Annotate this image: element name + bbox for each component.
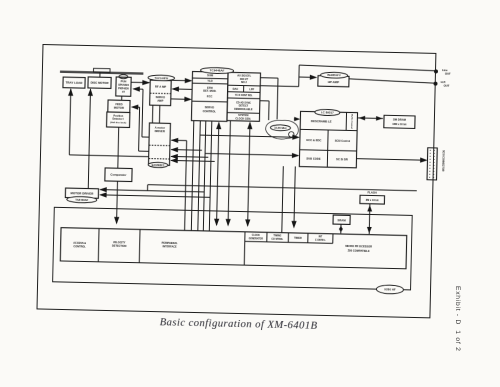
svg-text:AMP: AMP: [157, 99, 163, 103]
connector SCSI: [427, 148, 437, 180]
svg-text:BH3854FV: BH3854FV: [327, 73, 341, 77]
svg-text:DRIVER: DRIVER: [155, 129, 165, 133]
svg-text:YC D CONT ROL: YC D CONT ROL: [235, 95, 253, 97]
block Position Detector: [107, 112, 130, 128]
svg-text:33.86 MHz: 33.86 MHz: [274, 126, 287, 130]
wire comparator from position detector: [117, 127, 120, 168]
memory block SRAM: [333, 215, 350, 224]
wire TC9446 system bus bidirectional: [217, 123, 219, 225]
svg-text:X280 HF: X280 HF: [384, 287, 396, 291]
svg-text:CONTROL: CONTROL: [73, 245, 86, 248]
svg-text:SM DRAM: SM DRAM: [393, 117, 407, 121]
svg-text:SCSI CONNECTOR: SCSI CONNECTOR: [441, 150, 444, 172]
wire TC9446 to RF amp feedback: [173, 88, 193, 90]
block Comparator: [105, 168, 132, 182]
svg-text:TRAY LOAD: TRAY LOAD: [66, 81, 83, 85]
svg-text:MOTOR: MOTOR: [114, 106, 124, 110]
svg-text:OUT: OUT: [445, 72, 451, 76]
disc platter: [60, 72, 143, 74]
IC label TA2144FN: [148, 75, 175, 81]
wire to line out: [299, 65, 435, 71]
svg-text:DETECTION: DETECTION: [112, 244, 127, 247]
wire servo drive 3 into 4-motor driver: [171, 155, 208, 158]
wire SRAM to system bus double arrow: [340, 224, 342, 233]
wire into motor driver lower: [100, 195, 210, 197]
wire RF amp to TC9446 sum: [171, 79, 190, 81]
svg-text:HP AMP: HP AMP: [328, 80, 339, 84]
svg-text:RF A MP: RF A MP: [155, 85, 167, 89]
svg-text:ECC: ECC: [207, 94, 213, 98]
IC label TA8409AF: [67, 196, 97, 203]
wire TC9446 to LC89517 subcode: [203, 121, 205, 231]
block 4-motor driver: [148, 123, 170, 165]
svg-text:DEMODULABLE: DEMODULABLE: [234, 108, 253, 111]
node Line OUT: [434, 70, 437, 73]
wire servo bus down a: [185, 141, 187, 231]
wire servo drive 2 into 4-motor driver: [171, 149, 202, 152]
IC block LC89517 descramble controller: [299, 111, 357, 167]
wire HP amp to HP out: [349, 79, 434, 83]
svg-text:16M x 16 bit: 16M x 16 bit: [392, 123, 406, 126]
wire servo drive 1 into 4-motor driver: [171, 139, 186, 141]
svg-text:YLD: YLD: [207, 79, 213, 83]
svg-text:GENERATOR: GENERATOR: [249, 237, 264, 240]
system controller inner row box: [60, 228, 406, 269]
svg-text:MICRO PR OCESSOR: MICRO PR OCESSOR: [345, 244, 372, 249]
svg-text:TIMING: TIMING: [273, 235, 281, 237]
svg-text:DAC: DAC: [233, 87, 239, 91]
block FEED MOTOR: [108, 100, 130, 112]
svg-text:ECC & EDC: ECC & EDC: [306, 138, 321, 142]
cell dividers and short cells: [97, 229, 100, 262]
svg-text:(Half disc back): (Half disc back): [110, 122, 126, 124]
disc hub clamper: [93, 68, 110, 72]
IC label X280 HF: [376, 285, 403, 294]
svg-text:A motor: A motor: [155, 125, 166, 129]
svg-text:DISC MOTOR: DISC MOTOR: [91, 80, 109, 84]
svg-text:CONTROL: CONTROL: [203, 109, 217, 113]
wire TC9446 crystal pin b: [260, 100, 269, 102]
IC label TC9446AF: [200, 67, 233, 74]
svg-text:FLASH: FLASH: [367, 190, 376, 194]
wire 4-motor driver to PUH actuator: [142, 136, 149, 138]
wire disc motor from motor driver: [88, 89, 90, 188]
wire LC89517 down to system box b: [294, 166, 295, 227]
svg-text:OUT: OUT: [444, 84, 450, 88]
svg-text:DESCRAMB LE: DESCRAMB LE: [311, 119, 332, 123]
crystal X1: [289, 132, 295, 138]
svg-text:LPF: LPF: [249, 87, 254, 91]
wire long control bus across: [148, 185, 417, 191]
outer border frame: [37, 45, 436, 318]
IC block TC9446AF left half: [191, 71, 228, 121]
svg-text:LC 89517: LC 89517: [321, 110, 334, 114]
block PUH pickup head: [119, 75, 128, 79]
wire LC89517 to DRAM double arrow: [358, 117, 383, 120]
svg-text:Z80 COMPATIBLE: Z80 COMPATIBLE: [348, 249, 370, 254]
wire servo bus down c: [209, 121, 211, 231]
svg-text:Detector /: Detector /: [112, 118, 124, 121]
svg-text:BA5888FP: BA5888FP: [152, 163, 165, 167]
block DISC MOTOR: [88, 77, 111, 89]
svg-text:DET. MOD.: DET. MOD.: [203, 89, 216, 93]
svg-text:CLOCK: CLOCK: [252, 235, 260, 237]
svg-text:CLOCK GEN.: CLOCK GEN.: [235, 117, 251, 120]
amp block HP AMP: [318, 76, 349, 87]
wire audio riser: [260, 85, 298, 88]
wire into motor driver upper: [100, 190, 204, 192]
wire TC9446 to LC89517 data: [198, 121, 200, 231]
wire PUH to RF amp: [131, 81, 149, 83]
block MOTOR DRIVER: [65, 188, 98, 198]
wire audio to HP amp: [299, 76, 313, 78]
wire RF block down to motor driver block: [151, 105, 153, 123]
svg-text:TA8409AF: TA8409AF: [75, 198, 88, 202]
wire TC9446 right half down to system box: [228, 121, 230, 226]
IC label BA5888FP: [148, 162, 168, 168]
svg-text:SRAM: SRAM: [337, 218, 346, 222]
IC block TC9446AF right half: [227, 72, 261, 121]
svg-text:SUM: SUM: [207, 73, 214, 77]
svg-text:FEED: FEED: [115, 102, 122, 106]
svg-text:TC9446AF: TC9446AF: [210, 68, 225, 72]
svg-text:TIMER: TIMER: [294, 237, 302, 240]
wire tray load from driver: [69, 89, 70, 155]
wire comparator down into system box: [116, 181, 119, 223]
svg-text:MOTOR DRIVER: MOTOR DRIVER: [70, 191, 94, 196]
system controller outer box: [53, 207, 413, 290]
svg-text:Exhibit - D 1 of 2: Exhibit - D 1 of 2: [454, 286, 461, 352]
svg-text:SERVO: SERVO: [205, 105, 215, 109]
wire servo bus down b: [191, 121, 193, 231]
svg-text:SUB CODE: SUB CODE: [306, 156, 321, 160]
wire spindle to disc motor: [99, 72, 101, 77]
svg-text:Comparator: Comparator: [110, 173, 127, 177]
IC label BH3854FV: [321, 72, 348, 78]
svg-text:PUH: PUH: [121, 79, 127, 83]
wire TC9446 crystal pin a: [260, 77, 278, 79]
memory block DRAM buffer: [384, 115, 415, 128]
wire FLASH to system bus double arrow: [368, 204, 371, 234]
op-amp block RF AMP / SERVO AMP TA2144FN: [150, 80, 172, 105]
svg-text:CO NTROL: CO NTROL: [271, 239, 283, 241]
wire clock bus bidirectional: [248, 123, 250, 226]
wire 4-motor driver to feed motor: [139, 150, 149, 152]
svg-text:NO 2: NO 2: [241, 81, 247, 84]
svg-text:INTERFACE: INTERFACE: [163, 245, 177, 248]
IC label LC89517: [315, 109, 340, 116]
svg-text:TA2144FN: TA2144FN: [154, 76, 168, 80]
block TRAY LOAD: [63, 77, 85, 88]
wire servo drive 4 into 4-motor driver: [171, 159, 215, 162]
node H.P. OUT: [434, 82, 437, 85]
wire PUH to feed motor mechanical: [121, 96, 123, 100]
wire SCSI DRV to SCSI connector: [356, 159, 426, 161]
svg-text:SCSI Control: SCSI Control: [335, 139, 351, 142]
wire LC89517 down to system box a: [282, 166, 284, 232]
crystal oscillator 33.86 MHz blob: [265, 120, 298, 140]
wire servo amp to TC9446: [171, 98, 190, 100]
svg-text:Buffer Control: Buffer Control: [350, 114, 353, 129]
svg-text:C ONTR L: C ONTR L: [315, 240, 326, 242]
wire crystal to LC89517: [294, 118, 297, 120]
svg-text:8M x 16 bit: 8M x 16 bit: [366, 199, 379, 202]
svg-text:SC SI DR: SC SI DR: [336, 157, 348, 161]
